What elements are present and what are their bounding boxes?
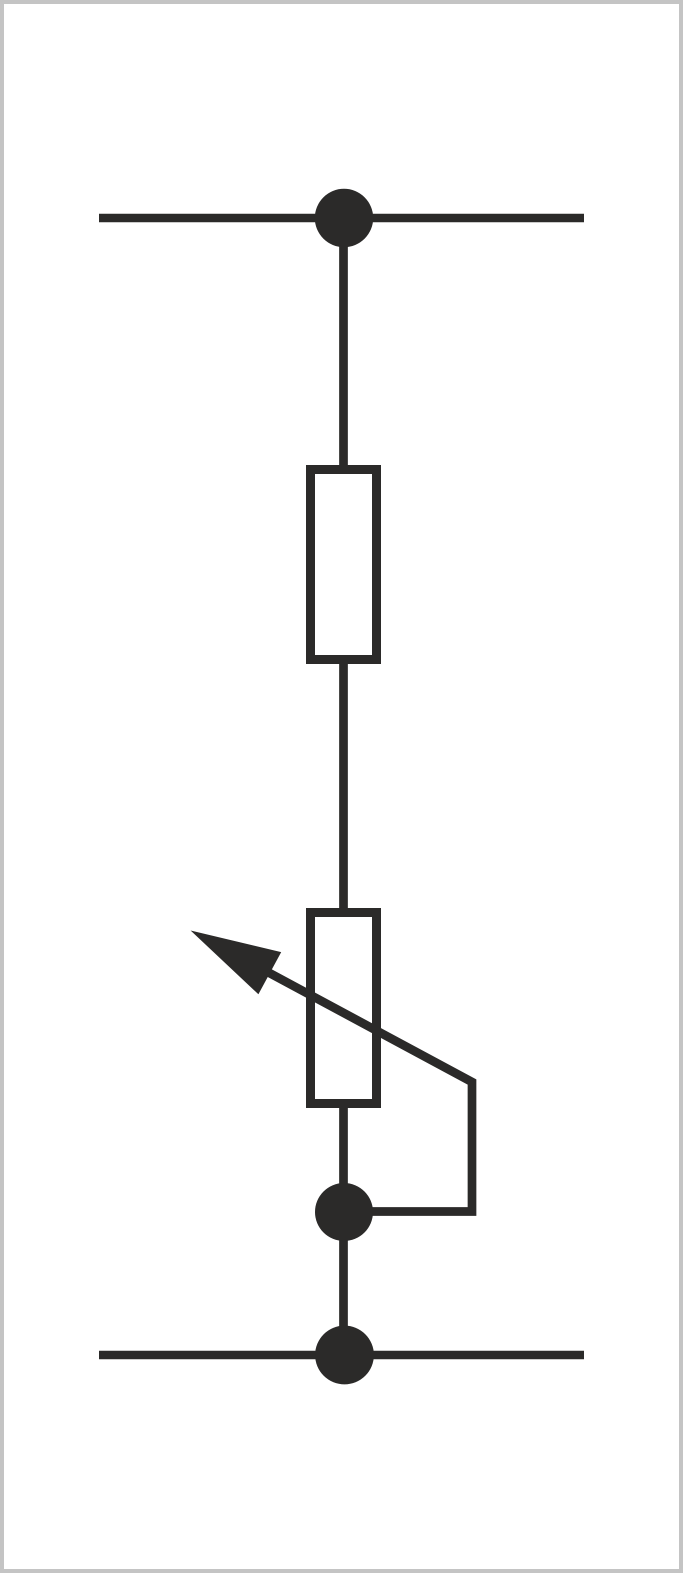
rheostat wiper arrow shaft and return wire to lower node: [240, 957, 472, 1211]
wire between R1 and rheostat R2: [339, 664, 348, 913]
wire from top node down to resistor R1: [339, 218, 348, 470]
junction dot: wiper node: [315, 1183, 373, 1241]
wire from R2 through wiper node to bottom bus: [339, 1108, 348, 1355]
resistor R1: [311, 470, 377, 660]
junction dot: top node: [315, 189, 373, 247]
rheostat R2 body: [311, 913, 377, 1104]
rheostat wiper arrowhead: [191, 931, 282, 995]
bottom bus wire: [99, 1351, 584, 1359]
top bus wire: [99, 214, 584, 222]
junction dot: bottom node: [315, 1326, 374, 1385]
